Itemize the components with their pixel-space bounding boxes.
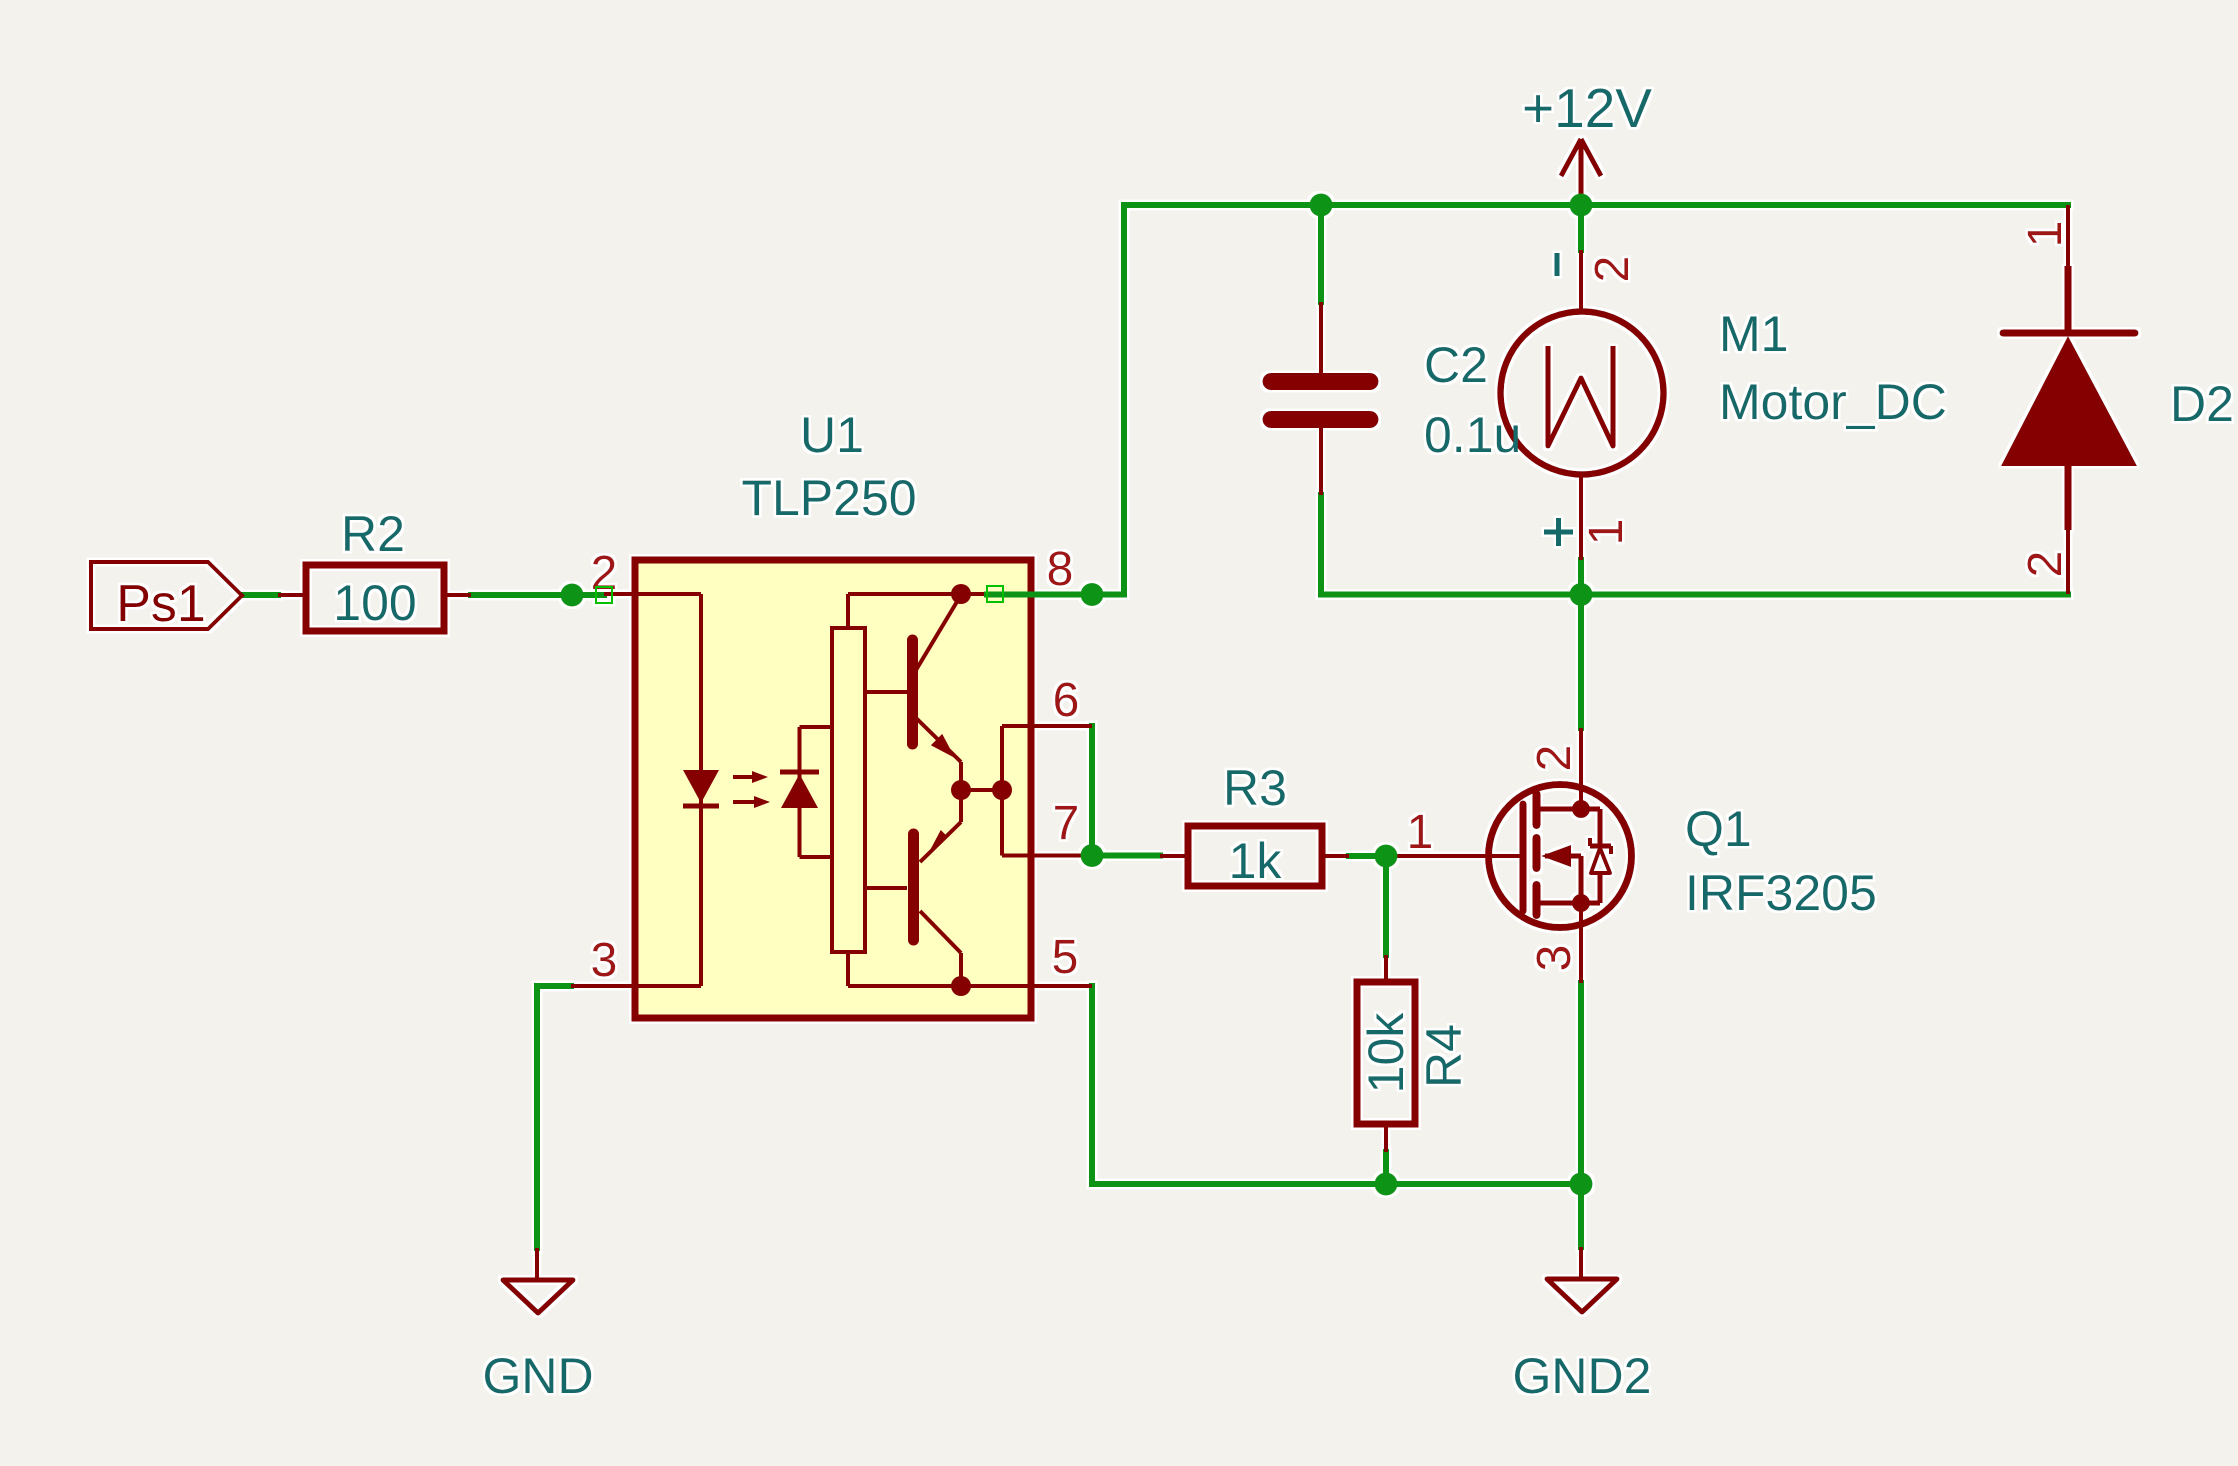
- svg-text:TLP250: TLP250: [741, 470, 916, 526]
- U1 pin 6-7 bracket: [1000, 726, 1004, 856]
- U1 internal node dot top: [951, 584, 971, 604]
- svg-text:+12V: +12V: [1522, 77, 1652, 139]
- svg-text:2: 2: [2019, 551, 2072, 578]
- wire R4 to ground rail: [1383, 1152, 1389, 1184]
- C2 bottom plate: [1271, 411, 1370, 428]
- wire C2 bottom lead: [1318, 495, 1324, 595]
- svg-text:IRF3205: IRF3205: [1685, 865, 1877, 921]
- M1 winding W glyph: [1548, 346, 1613, 446]
- Q1 bulk arrow: [1545, 854, 1581, 859]
- wire ground rail: [1092, 1181, 1581, 1187]
- wire Ps1 to R2: [242, 592, 278, 598]
- junction dot +12V node: [1570, 194, 1593, 217]
- D2 anode triangle: [2001, 336, 2137, 466]
- svg-text:3: 3: [591, 934, 618, 987]
- D2 cathode bar: [2003, 330, 2135, 337]
- svg-text:GND2: GND2: [1513, 1348, 1652, 1404]
- resistor R4: [1357, 955, 1472, 1152]
- wire motor pin 2 stub: [1578, 205, 1584, 250]
- Q1 body diode branch: [1581, 807, 1600, 812]
- U1 body outline: [635, 560, 1031, 1018]
- U1 LED cathode bar: [683, 804, 719, 809]
- M1 minus polarity mark: [1555, 253, 1560, 276]
- svg-text:1k: 1k: [1229, 833, 1283, 889]
- wire R3 to gate node: [1349, 853, 1386, 859]
- capacitor C2: [1271, 302, 1521, 495]
- M1 body circle: [1501, 312, 1664, 475]
- C2 pin 1: [1319, 302, 1323, 373]
- svg-text:D2: D2: [2170, 376, 2234, 432]
- svg-text:2: 2: [1528, 745, 1581, 772]
- U1 internal rail to pin 5: [846, 952, 850, 986]
- Q1 drain connection: [1540, 807, 1581, 812]
- U1 light arrow upper: [733, 775, 756, 779]
- svg-text:7: 7: [1053, 797, 1080, 850]
- svg-text:M1: M1: [1719, 306, 1788, 362]
- GND2 pin stub: [1579, 1247, 1583, 1279]
- svg-text:GND: GND: [482, 1348, 593, 1404]
- U1 body fill: [635, 560, 1031, 1018]
- U1 internal node dot bottom: [951, 976, 971, 996]
- svg-text:6: 6: [1053, 674, 1080, 727]
- +12V pin stub: [1579, 141, 1584, 205]
- junction dot GND2 node: [1570, 1173, 1593, 1196]
- C2 pin 2: [1319, 428, 1323, 495]
- U1 LED triangle: [683, 770, 719, 803]
- wire motor bottom rail to D2: [1321, 592, 2068, 598]
- junction dot pin 8 node: [1081, 583, 1104, 606]
- wire top +12V rail: [1124, 202, 2068, 208]
- Q1 body circle: [1489, 785, 1632, 928]
- svg-text:3: 3: [1528, 945, 1581, 972]
- M1 pin 2: [1579, 250, 1583, 312]
- Q1 pin 3 source lead: [1579, 903, 1583, 983]
- wire GND2 drop: [1578, 1184, 1584, 1247]
- svg-text:R2: R2: [341, 506, 405, 562]
- resistor R3: [1160, 760, 1349, 889]
- wire Q1 source to ground rail: [1578, 983, 1584, 1184]
- svg-text:U1: U1: [800, 407, 864, 463]
- Q1 channel bars: [1533, 794, 1541, 825]
- R4 pin 2: [1384, 1124, 1388, 1152]
- junction dot motor bottom node: [1570, 583, 1593, 606]
- U1 pin 2 line: [604, 592, 701, 596]
- U1 internal rail to pin 8: [846, 594, 850, 628]
- GND triangle: [503, 1280, 573, 1313]
- U1 upper transistor: [907, 640, 918, 744]
- C2 top plate: [1271, 373, 1370, 390]
- svg-text:2: 2: [1586, 256, 1639, 283]
- wire U1 pin 5 vertical: [1089, 986, 1095, 1184]
- R3 pin 2: [1322, 854, 1349, 858]
- svg-text:10k: 10k: [1358, 1012, 1414, 1094]
- Q1 pin 2 drain lead: [1579, 728, 1583, 812]
- R2 pin 2: [444, 593, 471, 597]
- GND pin stub: [535, 1248, 539, 1280]
- svg-text:C2: C2: [1424, 337, 1488, 393]
- svg-text:1: 1: [2019, 221, 2072, 248]
- wire pin 6 to pin 7 link: [1089, 726, 1095, 856]
- transistor Q1 IRF3205: [1386, 728, 1877, 983]
- R3 pin 1: [1160, 854, 1188, 858]
- U1 light arrow lower: [733, 800, 758, 804]
- ground GND: [482, 1248, 593, 1404]
- power symbol +12V: [1522, 77, 1652, 205]
- wire motor pin 1 stub: [1578, 560, 1584, 595]
- motor M1: [1501, 250, 1947, 560]
- diode D2: [2001, 205, 2234, 594]
- svg-text:8: 8: [1047, 543, 1074, 596]
- svg-text:1: 1: [1407, 806, 1434, 859]
- U1 photodiode: [798, 727, 802, 857]
- junction dot C2 top: [1310, 194, 1333, 217]
- R4 pin 1: [1384, 955, 1388, 982]
- pin end marker U1 pin 2: [596, 587, 612, 603]
- hierarchical label Ps1: [91, 562, 242, 633]
- svg-text:0.1u: 0.1u: [1424, 407, 1521, 463]
- junction dot pin 7 node: [1081, 844, 1104, 867]
- R2 body: [306, 565, 444, 631]
- wire U1 pin 3 to GND: [534, 986, 540, 1248]
- R2 pin 1: [278, 593, 306, 597]
- U1 output node link: [961, 788, 1002, 792]
- wire Q1 drain: [1578, 595, 1584, 729]
- resistor R2: [278, 506, 471, 631]
- M1 plus polarity mark: [1544, 530, 1573, 535]
- svg-text:Motor_DC: Motor_DC: [1719, 374, 1947, 430]
- wire U1 pin 8 to riser: [987, 592, 1124, 598]
- +12V arrow: [1561, 139, 1581, 176]
- pin end marker U1 pin 8: [987, 586, 1003, 602]
- svg-text:Q1: Q1: [1685, 801, 1752, 857]
- GND2 triangle: [1547, 1279, 1617, 1312]
- U1 pin 3 line: [571, 984, 701, 988]
- D2 pin 1: [2066, 205, 2070, 266]
- svg-text:1: 1: [1580, 519, 1633, 546]
- svg-text:Ps1: Ps1: [116, 575, 206, 633]
- U1 lower transistor: [959, 790, 963, 822]
- junction dot R4 bottom: [1375, 1173, 1398, 1196]
- svg-text:2: 2: [591, 547, 618, 600]
- M1 pin 1: [1579, 475, 1583, 560]
- svg-text:100: 100: [333, 575, 416, 631]
- Q1 source connection: [1540, 901, 1600, 906]
- wire R2 to U1 pin 2: [471, 592, 604, 598]
- opto-isolator U1 TLP250: [571, 407, 1092, 1018]
- U1 LED anode rail: [699, 594, 703, 986]
- Q1 pin 1 gate lead: [1386, 854, 1520, 858]
- wire C2 top lead: [1318, 205, 1324, 302]
- wire U1 pin 3 horizontal: [537, 983, 571, 989]
- svg-text:R4: R4: [1416, 1024, 1472, 1088]
- R3 body: [1188, 826, 1322, 886]
- svg-text:R3: R3: [1223, 760, 1287, 816]
- junction dot gate node: [1375, 845, 1398, 868]
- D2 pin 2: [2065, 466, 2072, 530]
- wire pin 7 node to R3: [1092, 853, 1160, 859]
- U1 pin 7 line: [1002, 854, 1092, 858]
- ground GND2: [1513, 1247, 1652, 1404]
- U1 bias resistor rectangle: [832, 628, 865, 952]
- R4 body: [1357, 982, 1415, 1124]
- svg-text:5: 5: [1052, 931, 1079, 984]
- wire gate node to R4: [1383, 856, 1389, 955]
- U1 pin 6 line: [1002, 724, 1092, 728]
- Q1 gate bar: [1520, 804, 1527, 911]
- wire riser pin 8 node to top rail: [1121, 205, 1127, 595]
- junction dot node IN: [561, 584, 584, 607]
